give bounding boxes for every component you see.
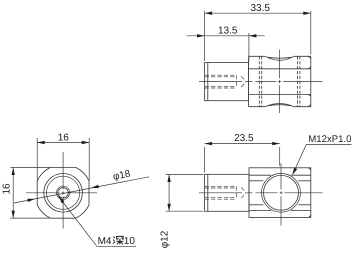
shaft end circle phi12 [44, 174, 83, 213]
svg-text:33.5: 33.5 [250, 3, 270, 14]
arrow M12 leader [291, 168, 297, 176]
centerline horizontal end view [26, 192, 97, 194]
svg-text:16: 16 [58, 132, 70, 143]
shaft chamfer circle [47, 176, 80, 209]
dimension line 23.5 [205, 143, 280, 145]
dimension line 33.5 [205, 12, 311, 14]
dimension line 13.5 [187, 35, 265, 37]
M12 hole circle inner [264, 175, 299, 210]
arrow 23.5 left [205, 142, 213, 145]
svg-text:13.5: 13.5 [218, 25, 238, 36]
arrow M4 leader [57, 195, 64, 203]
right end chamfer marks front view [309, 168, 311, 218]
M4 thread outer circle [57, 186, 70, 199]
svg-text:10: 10 [124, 236, 136, 247]
body outline end view (square with corner arcs) [37, 167, 89, 218]
extension lines 33.5 [204, 11, 206, 61]
arrow phi12 top [167, 175, 170, 183]
leader M4 [59, 196, 136, 246]
leader line phi18 [14, 177, 149, 203]
arrow 16 left top [12, 168, 15, 176]
arrow 16 top right [82, 141, 90, 144]
arrow phi12 bottom [167, 204, 170, 212]
hidden thread lines M12 hole top view [259, 56, 300, 106]
extension line 23.5 left [204, 147, 206, 173]
arrow 33.5 left [205, 12, 213, 15]
hole breakout dip bottom edge [265, 104, 294, 107]
centerline main axis top view [199, 81, 323, 83]
svg-text:16: 16 [2, 183, 13, 195]
arrow 13.5 left [197, 34, 205, 37]
extension lines 16 left [10, 167, 50, 169]
shaft outline top view [205, 63, 249, 101]
centerline M12 hole vertical front view [280, 163, 282, 225]
svg-text:23.5: 23.5 [234, 133, 254, 144]
svg-text:M12xP1.0: M12xP1.0 [308, 134, 351, 145]
hidden M4 tapped hole top view [205, 75, 247, 88]
centerline M12 hole axis top view [279, 50, 281, 114]
arrow phi18 right [91, 185, 99, 190]
dimension line 16 top [37, 142, 89, 144]
svg-text:M4: M4 [98, 236, 112, 247]
hole breakout dip top edge [265, 56, 294, 60]
extension line 23.5 right [279, 147, 281, 166]
centerline vertical end view [62, 152, 64, 229]
shaft outline front view [205, 174, 249, 211]
arrow 13.5 right [249, 34, 257, 37]
extension lines 16 top [36, 138, 38, 181]
hidden M4 hole front view [205, 186, 247, 199]
centerline main axis front view [199, 192, 323, 194]
arrow 33.5 right [303, 12, 311, 15]
tangent edge lines block inner [249, 175, 311, 210]
arrow 16 left bottom [12, 211, 15, 219]
right end chamfer marks [309, 56, 311, 106]
leader M12 [293, 145, 352, 174]
extension line 13.5 right [248, 33, 250, 62]
tangent edge lines body top view [249, 69, 311, 95]
arrow phi18 left [27, 197, 35, 202]
M4 tap hole circle [58, 188, 68, 198]
glyph shen (depth) hand drawn [113, 236, 123, 244]
arrow 16 top left [37, 141, 45, 144]
dimension line 16 left [12, 168, 14, 219]
extension lines phi12 [166, 174, 204, 176]
M12 thread circle outer [262, 173, 301, 212]
dimension line phi12 [168, 175, 170, 212]
svg-text:φ12: φ12 [159, 230, 170, 248]
block outline front view [249, 168, 311, 218]
arrow 23.5 right [272, 142, 280, 145]
body outline top view [249, 56, 311, 106]
